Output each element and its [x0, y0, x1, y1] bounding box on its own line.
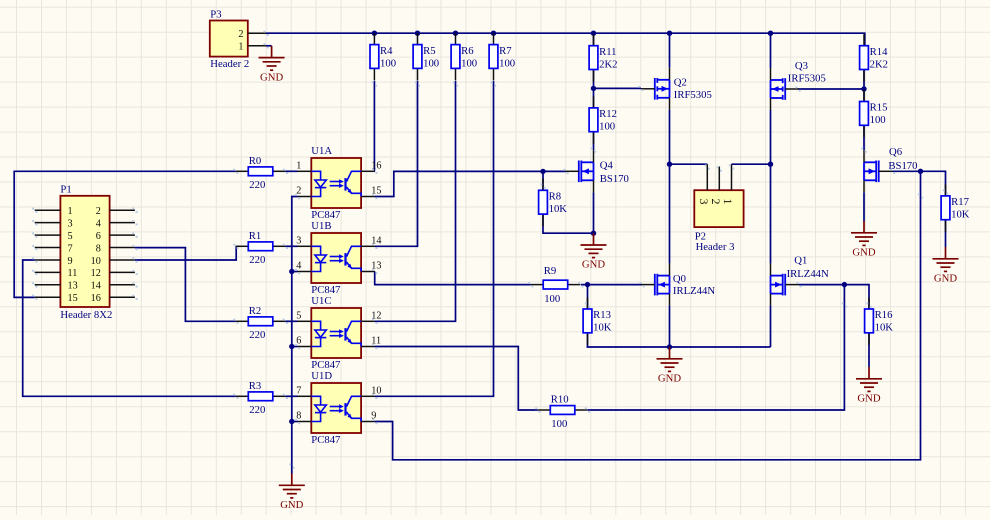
svg-text:Q3: Q3 [795, 60, 808, 72]
svg-text:BS170: BS170 [600, 173, 629, 185]
svg-text:U1C: U1C [311, 295, 331, 307]
svg-text:R12: R12 [599, 108, 617, 120]
transistor Q4 BS170 [579, 161, 594, 183]
wire P2 pin3 branch [670, 163, 708, 165]
svg-text:1: 1 [68, 206, 73, 217]
wire Q4 drain chain R11 R12 [593, 33, 595, 233]
wire Q1 gate stub [799, 284, 844, 286]
junction dot R9 R13 Q0 gate [585, 282, 590, 287]
resistor R12 100 [589, 96, 617, 143]
svg-text:R16: R16 [875, 309, 893, 321]
resistor R5 100 [413, 33, 439, 80]
svg-text:R1: R1 [249, 230, 261, 242]
svg-text:Header 3: Header 3 [696, 241, 735, 253]
svg-text:6: 6 [96, 231, 101, 242]
svg-text:P3: P3 [210, 8, 221, 20]
resistor R0 220 [236, 155, 285, 191]
junction dot R11 R12 Q2 gate [591, 86, 596, 91]
transistor Q2 IRF5305 [655, 78, 670, 100]
svg-text:8: 8 [296, 411, 301, 422]
resistor R17 10K [941, 184, 970, 231]
svg-text:2: 2 [96, 206, 101, 217]
resistor R15 100 [860, 90, 888, 137]
svg-text:R5: R5 [423, 45, 435, 57]
compile marks (decorative) [263, 31, 268, 36]
svg-text:GND: GND [852, 247, 875, 259]
transistor Q3 IRF5305 [771, 78, 786, 100]
svg-text:3: 3 [68, 218, 73, 229]
svg-text:11: 11 [68, 268, 78, 279]
svg-text:U1B: U1B [311, 220, 331, 232]
ground Q0 source bus [657, 347, 683, 371]
svg-text:GND: GND [260, 71, 283, 83]
wire R13 pulldown [587, 285, 589, 347]
wire R4 down to U1A pin16 [373, 81, 375, 171]
wire R5 down to U1B pin14 [375, 81, 418, 246]
svg-text:IRLZ44N: IRLZ44N [673, 285, 715, 297]
wire P3 pin1 to GND drop [266, 45, 272, 47]
svg-text:10K: 10K [593, 322, 612, 334]
svg-text:12: 12 [91, 268, 101, 279]
connector P3 Header 2 [210, 21, 248, 57]
op-amp U1A optocoupler PC847 [311, 158, 361, 208]
svg-text:R2: R2 [249, 305, 261, 317]
svg-text:U1A: U1A [311, 145, 332, 157]
svg-text:GND: GND [658, 373, 681, 385]
svg-text:GND: GND [934, 273, 957, 285]
svg-text:R14: R14 [870, 46, 888, 58]
svg-text:R17: R17 [951, 196, 969, 208]
svg-text:Header 2: Header 2 [210, 58, 249, 70]
junction dot Q4 source R8 GND [591, 231, 596, 236]
resistor R2 220 [236, 305, 285, 341]
wire R8 pulldown from node to Q4 source GND node [543, 171, 594, 233]
ground Q4 source [581, 233, 607, 257]
wire U1C pin11 to R10 to Q1 gate node [375, 285, 845, 410]
svg-text:2: 2 [238, 29, 243, 40]
ground R16 [856, 367, 882, 391]
svg-text:100: 100 [380, 57, 396, 69]
svg-text:PC847: PC847 [311, 434, 341, 446]
wire R7 down to U1D pin10 [375, 81, 494, 396]
svg-text:Q4: Q4 [600, 160, 614, 172]
svg-text:2: 2 [709, 199, 723, 205]
svg-text:5: 5 [68, 231, 73, 242]
resistor R13 10K [583, 298, 612, 345]
svg-text:Header 8X2: Header 8X2 [60, 309, 112, 321]
resistor R10 100 [538, 394, 588, 430]
svg-text:10: 10 [91, 256, 101, 267]
wire P1 pin15 to R0 [14, 171, 236, 297]
svg-text:2K2: 2K2 [870, 58, 888, 70]
resistor R1 220 [236, 230, 285, 266]
ground P3 [259, 46, 285, 70]
svg-text:R6: R6 [461, 45, 474, 57]
resistor R11 2K2 [589, 34, 617, 81]
svg-text:IRF5305: IRF5305 [674, 89, 712, 101]
wire top supply rail from P3 pin2 to R14 [266, 33, 865, 45]
svg-text:6: 6 [296, 336, 301, 347]
svg-text:R10: R10 [551, 394, 569, 406]
svg-text:Q1: Q1 [794, 254, 807, 266]
svg-text:15: 15 [68, 293, 78, 304]
svg-text:GND: GND [582, 259, 605, 271]
wire half-bridge right vertical Q3 Q1 [770, 33, 772, 347]
junction dot R14 R15 Q3 gate [861, 86, 866, 91]
ground R17 [933, 247, 959, 271]
resistor R16 10K [865, 298, 894, 345]
wire P2 pin1 branch [732, 163, 771, 165]
wire U1B pin13 to R9 to Q0 gate [375, 272, 642, 285]
svg-text:R0: R0 [249, 155, 261, 167]
svg-text:R8: R8 [549, 191, 561, 203]
wire Q6 gate node to R17 [893, 171, 946, 196]
connector P1 Header 8X2 [60, 196, 109, 307]
wire R0 to U1A pin1 [285, 170, 297, 172]
connector P2 Header 3 [694, 190, 743, 227]
svg-text:16: 16 [91, 293, 101, 304]
wire R16 pulldown from Q1 gate node [844, 285, 869, 367]
svg-text:BS170: BS170 [888, 160, 917, 172]
svg-text:2: 2 [296, 186, 301, 197]
svg-text:R4: R4 [380, 45, 393, 57]
svg-text:100: 100 [870, 114, 886, 126]
junction dot P2 pin1 node [768, 162, 773, 167]
junction dot Q6 gate R17 [918, 169, 923, 174]
svg-text:10K: 10K [549, 203, 568, 215]
svg-text:5: 5 [296, 310, 301, 321]
wire R17 to GND [945, 219, 947, 247]
svg-text:220: 220 [249, 254, 265, 266]
resistor R4 100 [370, 33, 396, 80]
svg-text:R11: R11 [599, 46, 616, 58]
junction dots opto cathode chain [289, 269, 294, 274]
svg-text:100: 100 [544, 293, 560, 305]
svg-text:100: 100 [551, 418, 567, 430]
svg-text:1: 1 [296, 160, 301, 171]
svg-text:100: 100 [599, 121, 615, 133]
svg-text:7: 7 [68, 243, 73, 254]
svg-text:14: 14 [91, 281, 101, 292]
wire Q3 gate from R14 R15 junction [798, 88, 864, 90]
svg-text:10K: 10K [951, 209, 970, 221]
svg-text:7: 7 [296, 385, 301, 396]
svg-text:10K: 10K [875, 322, 894, 334]
svg-text:220: 220 [249, 329, 265, 341]
svg-text:IRLZ44N: IRLZ44N [787, 268, 829, 280]
wire Q6 source to GND [863, 192, 865, 221]
op-amp U1D optocoupler PC847 [311, 383, 361, 433]
svg-text:3: 3 [296, 235, 301, 246]
resistor R14 2K2 [860, 34, 888, 81]
svg-text:9: 9 [68, 256, 73, 267]
wire P1 pin8 to R2 [135, 248, 236, 322]
wire R1 to U1B pin3 [285, 245, 297, 247]
svg-text:Q2: Q2 [674, 76, 687, 88]
wire U1D pin9 to Q6 gate long route [375, 171, 921, 460]
ground Q6 source [851, 221, 877, 245]
svg-text:GND: GND [857, 393, 880, 405]
svg-text:P1: P1 [60, 184, 71, 196]
svg-text:U1D: U1D [311, 370, 332, 382]
wire R3 to U1D pin7 [285, 395, 297, 397]
transistor Q6 BS170 [864, 161, 879, 183]
svg-text:R3: R3 [249, 380, 261, 392]
transistor Q0 IRLZ44N [655, 274, 670, 296]
resistor R3 220 [236, 380, 285, 416]
wire Q2 gate from R11 R12 junction [594, 87, 642, 89]
svg-text:R15: R15 [870, 102, 888, 114]
junction dot node Q4 gate / R8 [540, 169, 545, 174]
wire R6 down to U1C pin12 [375, 81, 456, 321]
svg-text:1: 1 [721, 199, 735, 205]
resistor R8 10K [539, 179, 568, 226]
svg-text:2K2: 2K2 [599, 58, 617, 70]
resistor R9 100 [531, 265, 581, 305]
svg-text:220: 220 [249, 404, 265, 416]
svg-text:GND: GND [280, 499, 303, 511]
resistor R6 100 [451, 33, 477, 80]
svg-text:100: 100 [461, 57, 477, 69]
wire R14 R15 chain to Q6 drain [863, 69, 865, 150]
ground opto chain [279, 474, 305, 498]
wire source GND bus R13 Q0 Q1 [587, 346, 771, 348]
svg-text:R13: R13 [593, 309, 611, 321]
wire opto cathode chain pins 2 4 6 8 to GND [292, 197, 298, 474]
wire P1 pin10 to R1 [135, 246, 236, 260]
svg-text:13: 13 [68, 281, 78, 292]
junction dot GND bus Q0 source [667, 344, 672, 349]
op-amp U1B optocoupler PC847 [311, 233, 361, 283]
svg-text:IRF5305: IRF5305 [788, 73, 826, 85]
transistor Q1 IRLZ44N [771, 274, 786, 296]
svg-text:8: 8 [96, 243, 101, 254]
svg-text:4: 4 [296, 261, 301, 272]
junction dots on supply rail [372, 31, 377, 36]
svg-text:Q0: Q0 [673, 273, 686, 285]
op-amp U1C optocoupler PC847 [311, 308, 361, 358]
wire R2 to U1C pin5 [285, 320, 297, 322]
svg-text:Q6: Q6 [889, 146, 903, 158]
wire P1 pin9 to R3 [23, 260, 236, 396]
svg-text:220: 220 [249, 179, 265, 191]
resistor R7 100 [489, 33, 515, 80]
wire U1A pin15 to Q4 gate node [375, 171, 566, 196]
svg-text:1: 1 [238, 42, 243, 53]
svg-text:3: 3 [697, 199, 711, 205]
svg-text:100: 100 [499, 57, 515, 69]
svg-text:R7: R7 [499, 45, 512, 57]
junction dot Q1 gate R10 R16 [842, 282, 847, 287]
svg-text:100: 100 [423, 57, 439, 69]
junction dot P2 pin3 node [667, 162, 672, 167]
svg-text:4: 4 [96, 218, 101, 229]
svg-text:R9: R9 [544, 265, 556, 277]
wire half-bridge left vertical Q2 Q0 [669, 33, 671, 347]
